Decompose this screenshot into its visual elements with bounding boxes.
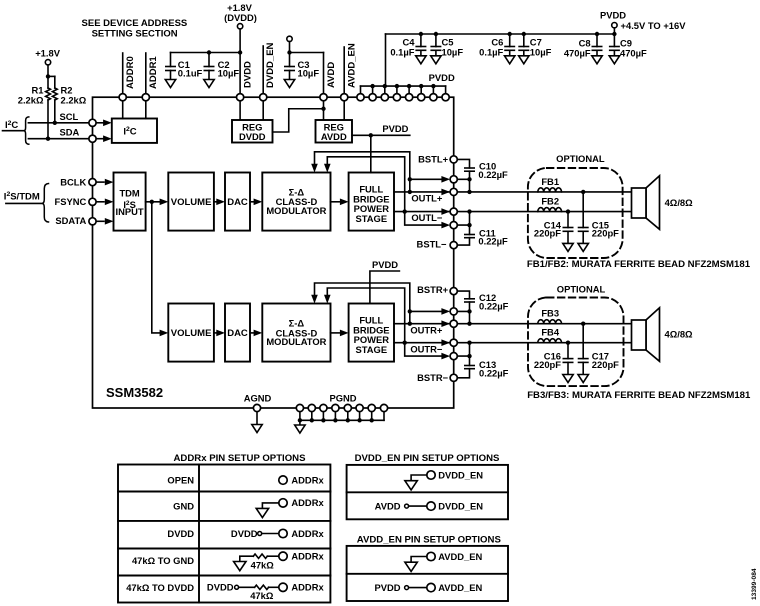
wire DAC R to modulator R — [250, 332, 254, 334]
node ADDR0 pin — [119, 94, 126, 101]
svg-text:ADDRx: ADDRx — [291, 551, 324, 562]
svg-text:AGND: AGND — [244, 392, 272, 403]
svg-text:ADDRx: ADDRx — [291, 528, 324, 539]
block Sigma-Delta Class-D Modulator R — [262, 304, 330, 362]
block VOLUME L — [168, 173, 214, 231]
node DVDD_EN pin — [260, 94, 267, 101]
wire OUTL- bridge output to pin a and speaker — [394, 211, 632, 213]
wire R2 bottom to SCL — [54, 100, 56, 123]
wire DAC L to modulator L — [250, 201, 254, 203]
resistor R1 2.2k — [46, 88, 51, 100]
svg-text:SCL: SCL — [60, 111, 79, 122]
svg-text:0.22µF: 0.22µF — [479, 368, 509, 379]
svg-text:2.2kΩ: 2.2kΩ — [61, 95, 87, 106]
svg-text:ADDRx PIN SETUP OPTIONS: ADDRx PIN SETUP OPTIONS — [173, 453, 306, 464]
node AVDD_EN pin — [341, 94, 348, 101]
wire modulator L to bridge L — [331, 201, 341, 203]
junction OUTL+ / C15 — [581, 190, 585, 194]
svg-text:STAGE: STAGE — [355, 344, 387, 355]
svg-text:DVDD: DVDD — [207, 582, 234, 593]
wire OUTR- pin b stub — [405, 343, 442, 356]
node PGND pins x8 — [296, 404, 387, 411]
wire VOLUME L to DAC L — [214, 201, 217, 203]
wire VOLUME R to DAC R — [214, 332, 217, 334]
block DAC L — [225, 173, 250, 231]
wire PVDD into bridge L — [370, 135, 372, 172]
svg-text:DVDD: DVDD — [167, 528, 194, 539]
capacitor C12 0.22uF — [465, 299, 474, 324]
capacitor C2 10uF — [204, 53, 213, 80]
svg-text:220pF: 220pF — [592, 228, 619, 239]
svg-text:STAGE: STAGE — [355, 213, 387, 224]
junction at R1/R2 top — [46, 74, 50, 78]
svg-text:PVDD: PVDD — [374, 582, 400, 593]
block Full Bridge Power Stage R — [349, 304, 394, 362]
svg-text:+4.5V TO +16V: +4.5V TO +16V — [621, 20, 687, 31]
svg-text:AVDD_EN: AVDD_EN — [438, 551, 482, 562]
junction OUTL- / C14 — [566, 209, 570, 213]
svg-text:FB2: FB2 — [541, 196, 559, 207]
resistor 47k horizontal — [253, 554, 267, 558]
svg-text:SEE DEVICE ADDRESS: SEE DEVICE ADDRESS — [82, 18, 188, 29]
junction OUTR- / C16 — [566, 341, 570, 345]
capacitor C11 0.22uF — [454, 212, 475, 246]
node DVDD pin — [237, 94, 244, 101]
svg-text:ADDR0: ADDR0 — [125, 56, 136, 89]
node BSTR- pin — [450, 374, 457, 381]
wire rail drop to PVDD comb — [385, 34, 387, 86]
capacitor C17 220pF — [579, 324, 588, 375]
wire FSYNC arrow into TDM block — [96, 201, 104, 203]
svg-text:220pF: 220pF — [592, 359, 619, 370]
svg-text:OPTIONAL: OPTIONAL — [556, 153, 605, 164]
wire +1.8V to R1/R2 — [48, 65, 55, 88]
svg-text:47kΩ TO GND: 47kΩ TO GND — [132, 555, 194, 566]
svg-text:MODULATOR: MODULATOR — [266, 336, 326, 347]
svg-text:DVDD_EN: DVDD_EN — [438, 501, 483, 512]
svg-text:OUTL−: OUTL− — [411, 212, 443, 223]
ferrite bead FB2 — [538, 208, 562, 212]
svg-text:PGND: PGND — [329, 392, 356, 403]
speaker R — [632, 308, 660, 362]
capacitor C16 220pF — [563, 343, 572, 375]
svg-text:OUTR−: OUTR− — [410, 343, 443, 354]
svg-text:+1.8V: +1.8V — [35, 47, 61, 58]
node AVDD pin — [320, 94, 327, 101]
ferrite bead FB1 — [538, 188, 562, 192]
node BSTR+ pin — [450, 288, 457, 295]
svg-text:I2C: I2C — [123, 126, 136, 137]
wire SCL arrow into I2C block — [96, 122, 104, 124]
wire DVDD vertical — [239, 29, 241, 94]
svg-text:SSM3582: SSM3582 — [106, 385, 163, 400]
svg-text:0.1µF: 0.1µF — [390, 47, 414, 58]
dashed optional box L — [528, 168, 623, 258]
block TDM I2S INPUT — [114, 173, 146, 231]
svg-text:PVDD: PVDD — [372, 259, 398, 270]
wire ADDR0 — [122, 53, 124, 94]
junctions on PVDD comb — [370, 84, 374, 88]
svg-text:13399-084: 13399-084 — [751, 568, 758, 600]
svg-text:470µF: 470µF — [564, 48, 591, 59]
wire PVDD row2 into bridge R — [370, 271, 400, 304]
svg-text:47kΩ: 47kΩ — [250, 590, 274, 601]
node PVDD pins x8 — [357, 94, 449, 101]
capacitor C6 0.1uF — [508, 32, 512, 36]
node OUTL- pin b — [450, 222, 457, 229]
svg-text:VOLUME: VOLUME — [171, 197, 212, 208]
wire feedback OUTL- to modulator L — [327, 157, 404, 212]
svg-text:OPTIONAL: OPTIONAL — [557, 283, 606, 294]
wire OUTL+ bridge output to pin b and speaker — [394, 191, 632, 193]
svg-text:VOLUME: VOLUME — [171, 328, 212, 339]
svg-text:SDATA: SDATA — [55, 215, 86, 226]
svg-text:10µF: 10µF — [530, 47, 552, 58]
svg-text:ADDRx: ADDRx — [291, 497, 324, 508]
svg-text:0.1uF: 0.1uF — [178, 68, 203, 79]
svg-text:DVDD: DVDD — [231, 528, 258, 539]
svg-text:10µF: 10µF — [442, 47, 464, 58]
svg-text:47kΩ: 47kΩ — [251, 559, 275, 570]
wire PGND comb — [300, 412, 384, 421]
row GND to AVDD_EN — [427, 552, 435, 560]
svg-text:I2C: I2C — [5, 120, 18, 131]
wire BSTL+ to C10 — [454, 159, 470, 168]
svg-text:DVDD: DVDD — [239, 131, 266, 142]
svg-text:GND: GND — [173, 501, 194, 512]
wire AVDD_EN pin to REG AVDD — [343, 101, 345, 120]
svg-text:AVDD: AVDD — [326, 62, 337, 88]
svg-text:470µF: 470µF — [620, 48, 647, 59]
node SDATA pin — [89, 218, 96, 225]
svg-text:PVDD: PVDD — [600, 9, 626, 20]
svg-text:220pF: 220pF — [534, 359, 561, 370]
svg-text:ADDRx: ADDRx — [291, 582, 324, 593]
svg-text:10µF: 10µF — [298, 68, 320, 79]
svg-text:0.22µF: 0.22µF — [478, 169, 508, 180]
node OUTL- pin a — [450, 208, 457, 215]
svg-text:220pF: 220pF — [534, 228, 561, 239]
brace I2S/TDM — [42, 184, 49, 223]
svg-text:0.1µF: 0.1µF — [479, 47, 503, 58]
wire OUTL- pin b stub — [405, 212, 442, 226]
svg-text:DAC: DAC — [227, 328, 248, 339]
wire OUTR+ pin a stub — [410, 310, 442, 312]
dashed optional box R — [528, 298, 624, 387]
node SCL pin — [89, 119, 96, 126]
capacitor C4 0.1uF — [419, 32, 423, 36]
svg-text:BSTR−: BSTR− — [417, 372, 449, 383]
svg-text:AVDD: AVDD — [375, 501, 401, 512]
capacitor C1 0.1uF — [166, 53, 175, 80]
svg-text:ADDR1: ADDR1 — [148, 56, 159, 89]
svg-text:FSYNC: FSYNC — [55, 196, 87, 207]
wire feedback OUTR+ to modulator R — [315, 283, 410, 324]
wire feedback OUTR- to modulator R — [327, 288, 404, 343]
node ADDR1 pin — [142, 94, 149, 101]
block I2C — [112, 119, 157, 143]
svg-text:INPUT: INPUT — [116, 206, 144, 217]
wire DVDD_EN pin to REG DVDD — [262, 101, 264, 120]
capacitor C8 470uF — [595, 32, 599, 36]
wire BCLK arrow into TDM block — [96, 181, 104, 183]
svg-text:BSTR+: BSTR+ — [417, 284, 449, 295]
svg-text:SETTING SECTION: SETTING SECTION — [92, 29, 178, 40]
block DAC R — [225, 304, 250, 362]
svg-text:I2S/TDM: I2S/TDM — [4, 191, 40, 202]
wire PVDD top rail — [386, 33, 615, 35]
wire SDA — [28, 138, 92, 140]
wire AVDD_EN vertical — [343, 47, 345, 94]
wire BSTR+ to C12 — [454, 291, 470, 299]
wire DVDD_EN vertical — [262, 46, 264, 94]
svg-text:TDM: TDM — [119, 188, 139, 199]
ferrite bead FB4 — [538, 339, 562, 343]
capacitor C9 470uF — [612, 32, 616, 36]
svg-text:FB3: FB3 — [541, 308, 559, 319]
svg-text:OPEN: OPEN — [167, 474, 194, 485]
block Sigma-Delta Class-D Modulator L — [262, 173, 330, 231]
block REG DVDD — [232, 120, 273, 143]
node BSTL- pin — [450, 242, 457, 249]
wire AVDD rail — [290, 42, 324, 94]
wire TDM output — [146, 201, 160, 203]
node SDA pin — [89, 135, 96, 142]
node BSTL+ pin — [450, 156, 457, 163]
svg-text:FB4: FB4 — [541, 327, 559, 338]
svg-text:DVDD_EN: DVDD_EN — [438, 469, 483, 480]
wire OUTR+ bridge output to pin b and speaker — [394, 323, 632, 325]
junction R1/SDA — [46, 137, 50, 141]
wire OUTL+ pin a stub — [410, 178, 442, 180]
capacitor C10 0.22uF — [465, 168, 474, 192]
node AGND pin — [253, 404, 260, 411]
svg-text:BCLK: BCLK — [60, 176, 86, 187]
wire REG AVDD output PVDD node — [352, 134, 410, 136]
node OUTL+ pin b — [450, 188, 457, 195]
junction OUTR+ / C17 — [581, 322, 585, 326]
node OUTR+ pin a — [450, 308, 457, 315]
node OUTR+ pin b — [450, 320, 457, 327]
ground AGND — [256, 412, 258, 425]
svg-text:2.2kΩ: 2.2kΩ — [18, 95, 44, 106]
svg-text:DVDD_EN PIN SETUP OPTIONS: DVDD_EN PIN SETUP OPTIONS — [355, 453, 500, 464]
svg-text:FB1/FB2: MURATA FERRITE BEAD N: FB1/FB2: MURATA FERRITE BEAD NFZ2MSM181 — [527, 259, 751, 270]
op-amp U1 SSM3582 chip outline — [93, 97, 454, 408]
wire SDATA arrow into TDM block — [96, 220, 104, 222]
capacitor C7 10uF — [522, 32, 526, 36]
wire TDM output branch down to row2 — [152, 202, 160, 333]
wire DVDD pin to REG DVDD — [239, 101, 241, 120]
svg-text:0.22µF: 0.22µF — [478, 235, 508, 246]
ground PGND — [299, 420, 301, 425]
wire PVDD comb — [361, 86, 446, 94]
ferrite bead FB3 — [538, 320, 562, 324]
svg-text:FB3/FB3: MURATA FERRITE BEAD N: FB3/FB3: MURATA FERRITE BEAD NFZ2MSM181 — [527, 390, 751, 401]
wire SDA arrow into I2C block — [96, 138, 104, 140]
capacitor C13 0.22uF — [454, 343, 475, 378]
wire C1/C2 rail — [171, 52, 241, 54]
speaker L — [632, 176, 660, 230]
wire feedback OUTL+ to modulator L — [315, 152, 410, 192]
wire REG DVDD output to AVDD net — [273, 109, 324, 132]
node OUTR- pin b — [450, 353, 457, 360]
svg-text:(DVDD): (DVDD) — [224, 12, 257, 23]
node BCLK pin — [89, 179, 96, 186]
resistor R2 2.2k — [52, 88, 57, 100]
junctions on PGND comb — [298, 418, 302, 422]
svg-text:BSTL−: BSTL− — [417, 239, 447, 250]
svg-text:FB1: FB1 — [541, 176, 559, 187]
brace I2C — [24, 117, 29, 144]
svg-text:AVDD_EN: AVDD_EN — [438, 582, 482, 593]
wire OUTR- bridge output to pin a and speaker — [394, 342, 632, 344]
svg-text:AVDD_EN: AVDD_EN — [347, 43, 358, 88]
capacitor C14 220pF — [563, 212, 572, 244]
svg-text:PVDD: PVDD — [382, 123, 408, 134]
svg-text:ADDRx: ADDRx — [291, 474, 324, 485]
svg-text:DAC: DAC — [227, 197, 248, 208]
capacitor C15 220pF — [579, 192, 588, 244]
svg-text:OUTL+: OUTL+ — [411, 193, 443, 204]
node OUTL+ pin a — [450, 176, 457, 183]
svg-text:MODULATOR: MODULATOR — [266, 205, 326, 216]
block REG AVDD — [316, 120, 353, 143]
row GND to DVDD_EN — [427, 471, 435, 479]
svg-text:PVDD: PVDD — [429, 72, 455, 83]
wire R1 bottom to SDA — [47, 100, 49, 139]
svg-text:0.22µF: 0.22µF — [479, 301, 509, 312]
svg-text:DVDD_EN: DVDD_EN — [265, 42, 276, 88]
block VOLUME R — [168, 304, 214, 362]
svg-text:DVDD: DVDD — [242, 61, 253, 88]
junction R2/SCL — [53, 121, 57, 125]
node FSYNC pin — [89, 198, 96, 205]
wire ADDR1 — [145, 53, 147, 94]
svg-text:AVDD: AVDD — [321, 131, 347, 142]
capacitor C5 10uF — [434, 32, 438, 36]
wire SCL — [28, 122, 92, 124]
wire AVDD pin to REG AVDD — [323, 101, 325, 120]
svg-text:BSTL+: BSTL+ — [418, 154, 448, 165]
svg-text:10µF: 10µF — [218, 68, 240, 79]
svg-text:4Ω/8Ω: 4Ω/8Ω — [665, 329, 694, 340]
svg-text:SDA: SDA — [60, 127, 80, 138]
block Full Bridge Power Stage L — [349, 173, 394, 231]
svg-text:47kΩ TO DVDD: 47kΩ TO DVDD — [126, 582, 194, 593]
svg-text:AVDD_EN PIN SETUP OPTIONS: AVDD_EN PIN SETUP OPTIONS — [357, 535, 502, 546]
wire modulator R to bridge R — [331, 332, 341, 334]
node AVDD supply terminal — [287, 36, 292, 41]
node OUTR- pin a — [450, 339, 457, 346]
svg-text:4Ω/8Ω: 4Ω/8Ω — [665, 197, 694, 208]
svg-text:OUTR+: OUTR+ — [410, 325, 443, 336]
capacitor C3 10uF — [285, 53, 294, 80]
